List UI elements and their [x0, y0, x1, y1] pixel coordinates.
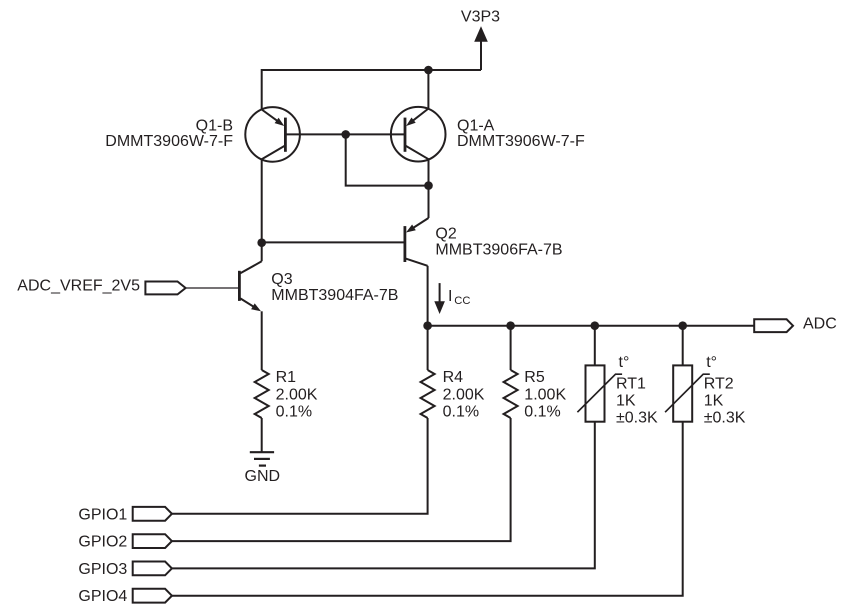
wire base-collector tie	[346, 134, 429, 185]
svg-text:ADC: ADC	[803, 316, 837, 333]
svg-text:0.1%: 0.1%	[276, 404, 312, 421]
wire bus to R5	[510, 326, 512, 370]
svg-text:0.1%: 0.1%	[443, 404, 479, 421]
junction dot base rail	[341, 130, 350, 139]
wire top rail	[262, 70, 481, 110]
svg-text:t°: t°	[706, 354, 717, 371]
svg-text:2.00K: 2.00K	[443, 386, 485, 403]
current arrow Icc	[434, 283, 445, 314]
wire main bus to ADC	[428, 325, 755, 327]
wire GPIO3 to RT1	[172, 422, 595, 569]
svg-text:GND: GND	[245, 468, 281, 485]
svg-text:Q1-A: Q1-A	[457, 117, 495, 134]
svg-text:GPIO3: GPIO3	[78, 561, 127, 578]
wire Q1-A collector to Q2 emitter	[428, 159, 430, 218]
svg-text:I: I	[448, 288, 452, 305]
svg-text:R5: R5	[524, 369, 545, 386]
wire Q1-A emitter feed	[427, 70, 429, 109]
svg-text:GPIO2: GPIO2	[78, 534, 127, 551]
thermistor RT2	[665, 365, 710, 421]
transistor Q1-B	[245, 107, 300, 162]
svg-text:1K: 1K	[616, 393, 636, 410]
svg-text:Q3: Q3	[271, 271, 292, 288]
svg-text:Q1-B: Q1-B	[196, 117, 233, 134]
junction dot left column	[257, 238, 266, 247]
svg-text:1.00K: 1.00K	[524, 386, 566, 403]
resistor R4	[421, 370, 435, 418]
wire Q1-B collector down to Q3 collector	[261, 159, 263, 261]
wire Q2 collector down	[427, 266, 429, 326]
junction dot R4	[423, 321, 432, 330]
ground GND	[250, 452, 274, 465]
svg-text:CC: CC	[454, 295, 470, 307]
transistor Q2	[405, 218, 429, 266]
svg-text:t°: t°	[619, 354, 630, 371]
svg-text:DMMT3906W-7-F: DMMT3906W-7-F	[105, 133, 233, 150]
wire GPIO4 to RT2	[172, 422, 683, 596]
wire port to Q3 base	[186, 287, 240, 289]
wire bus to RT2	[682, 326, 684, 366]
svg-text:Q2: Q2	[435, 226, 456, 243]
port ADC	[754, 319, 793, 332]
thermistor RT1	[577, 365, 622, 421]
wire base rail Q1-B to Q1-A	[285, 133, 405, 135]
wire R1 to ground	[261, 418, 263, 452]
power V3P3	[461, 9, 500, 71]
resistor R5	[504, 370, 518, 418]
junction dot R5	[506, 321, 515, 330]
wire Q2 base lead	[262, 241, 405, 243]
svg-text:GPIO4: GPIO4	[78, 588, 127, 605]
svg-text:0.1%: 0.1%	[524, 404, 560, 421]
transistor Q1-A	[391, 107, 446, 162]
wire GPIO2 to R5	[172, 418, 511, 541]
wire bus to R4	[427, 326, 429, 370]
svg-text:±0.3K: ±0.3K	[616, 410, 658, 427]
wire bus to RT1	[594, 326, 596, 366]
junction dot RT1	[591, 321, 600, 330]
svg-text:MMBT3906FA-7B: MMBT3906FA-7B	[435, 241, 562, 258]
svg-text:1K: 1K	[704, 393, 724, 410]
svg-text:MMBT3904FA-7B: MMBT3904FA-7B	[271, 287, 398, 304]
junction dot top rail	[424, 66, 433, 75]
svg-text:GPIO1: GPIO1	[78, 506, 127, 523]
svg-text:V3P3: V3P3	[461, 9, 500, 26]
junction dot collector tie	[424, 181, 433, 190]
svg-text:2.00K: 2.00K	[276, 386, 318, 403]
svg-text:±0.3K: ±0.3K	[704, 410, 746, 427]
junction dot RT2	[678, 321, 687, 330]
svg-text:DMMT3906W-7-F: DMMT3906W-7-F	[457, 133, 585, 150]
wire GPIO1 to R4	[172, 418, 428, 514]
svg-text:R4: R4	[443, 369, 464, 386]
transistor Q3	[239, 261, 261, 311]
svg-text:RT2: RT2	[704, 376, 734, 393]
svg-text:RT1: RT1	[616, 376, 646, 393]
wire Q3 emitter down to R1	[261, 311, 263, 370]
resistor R1	[255, 370, 269, 418]
svg-text:ADC_VREF_2V5: ADC_VREF_2V5	[17, 278, 140, 295]
svg-text:R1: R1	[276, 369, 297, 386]
